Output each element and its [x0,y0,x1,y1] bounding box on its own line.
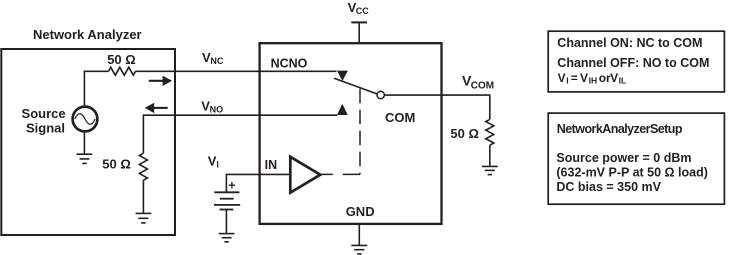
svg-text:IH: IH [589,76,598,86]
arrow left (signal direction) [145,103,168,113]
label: + (battery positive) [228,178,235,192]
svg-text:CC: CC [356,6,369,16]
svg-text:50 Ω: 50 Ω [450,126,479,141]
ground (below termination resistor) [136,213,152,223]
svg-text:IN: IN [265,158,278,172]
switch pole circle (COM) [377,91,384,98]
NO contact (up triangle) [337,104,348,115]
svg-text:V: V [610,71,618,85]
pin label NCNO [271,56,308,70]
wire COM output to load [384,95,490,119]
svg-text:Source: Source [22,106,66,121]
node V_CC label [348,0,370,16]
svg-text:COM: COM [471,81,494,92]
svg-text:Channel ON: NC to COM: Channel ON: NC to COM [557,36,702,50]
label: 50 ohm (series) [107,52,136,67]
label: 50 ohm (load) [450,126,479,141]
battery V2 (V_I source) [214,192,240,209]
svg-text:50 Ω: 50 Ω [102,156,131,171]
svg-text:50 Ω: 50 Ω [107,52,136,67]
wire V_NC net: resistor to NC contact [136,70,337,72]
Network Analyzer box [1,49,175,235]
svg-text:NCNO: NCNO [271,56,308,70]
dashed control line from driver to lever [359,89,361,175]
source V1 Source Signal (AC source) [73,107,98,132]
node V_COM label [462,73,494,92]
node V_I label [208,153,219,169]
pin label IN [265,158,278,172]
svg-text:V: V [558,71,566,85]
ground (below source) [77,154,93,163]
switch lever [334,78,377,94]
wire load resistor to ground [489,145,491,166]
label: Source Signal [22,106,66,136]
wire source top to series resistor [84,71,108,106]
wire battery to ground [225,210,227,234]
svg-text:I: I [566,76,568,86]
svg-text:GND: GND [346,204,375,219]
wire termination resistor to ground [142,180,144,213]
NC contact (down triangle) [337,71,348,81]
note box: network analyzer setup [548,113,724,204]
arrow right (signal direction) [149,76,172,86]
resistor R3 50 ohm load [486,119,494,145]
ground (below load resistor) [482,166,498,174]
svg-text:Signal: Signal [26,121,65,136]
svg-text:Channel OFF: NO to COM: Channel OFF: NO to COM [557,56,709,70]
svg-text:Network Analyzer: Network Analyzer [33,27,142,42]
svg-text:DC bias = 350 mV: DC bias = 350 mV [556,180,661,194]
svg-text:+: + [228,178,235,192]
svg-text:I: I [216,159,219,169]
svg-text:(632-mV P-P at 50 Ω load): (632-mV P-P at 50 Ω load) [556,166,708,180]
svg-text:IL: IL [619,76,627,86]
svg-text:NO: NO [210,105,224,115]
label: 50 ohm (termination) [102,156,131,171]
svg-text:NC: NC [210,56,223,66]
label: Network Analyzer [33,27,142,42]
svg-text:=: = [571,71,578,85]
note box: channel states [548,31,724,92]
ground (below GND pin) [351,245,367,254]
node V_NO label [201,99,223,115]
svg-text:NetworkAnalyzerSetup: NetworkAnalyzerSetup [557,122,683,136]
switch IC box U1 [260,43,442,224]
pin label GND [346,204,375,219]
wire GND pin to ground [358,224,360,245]
wire IN input [226,174,290,191]
svg-text:V: V [580,71,588,85]
node V_NC label [202,50,224,66]
driver buffer U1A [290,157,320,193]
ground (below battery) [219,234,235,242]
resistor R2 50 ohm termination [139,153,147,180]
resistor R1 50 ohm series [109,67,136,75]
svg-text:COM: COM [385,110,415,125]
power V_CC terminal [351,22,367,43]
wire source ground [83,131,85,153]
wire V_NO net: termination corner to NO contact [143,115,337,153]
svg-text:Source power = 0 dBm: Source power = 0 dBm [556,151,691,165]
pin label COM [385,110,415,125]
